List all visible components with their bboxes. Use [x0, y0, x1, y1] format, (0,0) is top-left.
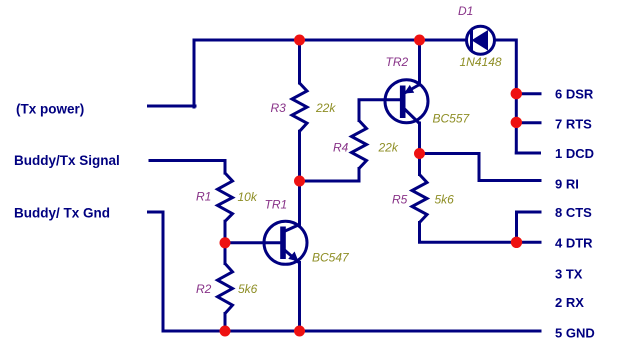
wire TR1 emitter down — [298, 263, 301, 332]
svg-text:Buddy/ Tx Gnd: Buddy/ Tx Gnd — [14, 206, 110, 221]
wire RTS stub — [516, 121, 540, 124]
wire DCD stub — [516, 152, 539, 155]
resistor R3 — [292, 83, 307, 131]
svg-text:R5: R5 — [392, 192, 408, 206]
wire R2 bottom — [224, 314, 227, 332]
svg-text:R1: R1 — [196, 190, 211, 204]
svg-text:TR2: TR2 — [386, 55, 409, 69]
svg-text:8 CTS: 8 CTS — [555, 205, 592, 220]
svg-text:22k: 22k — [315, 101, 336, 115]
svg-text:6 DSR: 6 DSR — [555, 86, 594, 101]
svg-text:9 RI: 9 RI — [555, 176, 579, 191]
node junction RTS — [511, 117, 522, 128]
svg-text:BC547: BC547 — [312, 251, 350, 265]
svg-text:BC557: BC557 — [433, 112, 471, 126]
wire Gnd lead — [149, 212, 164, 331]
wire R2 top — [224, 243, 227, 264]
node junction DSR — [511, 88, 522, 99]
svg-text:1 DCD: 1 DCD — [555, 146, 594, 161]
node junction top R3 — [294, 35, 305, 46]
wire top rail — [194, 40, 465, 107]
node junction top TR2 — [414, 35, 425, 46]
resistor R5 — [412, 175, 427, 223]
svg-text:5k6: 5k6 — [435, 192, 455, 206]
svg-text:4 DTR: 4 DTR — [555, 236, 593, 251]
wire R4 top to TR2 base — [359, 100, 400, 121]
transistor TR1 — [264, 221, 307, 264]
node junction TR1 base — [220, 237, 231, 248]
node junction R3 R4 — [294, 176, 305, 187]
node junction DTR — [511, 237, 522, 248]
node junction rail TR1 — [294, 326, 305, 337]
svg-text:(Tx power): (Tx power) — [16, 102, 84, 117]
svg-text:1N4148: 1N4148 — [460, 55, 502, 69]
wire R3 top — [298, 40, 301, 83]
node junction TR2 collector — [414, 148, 425, 159]
svg-text:D1: D1 — [458, 4, 473, 18]
wire bottom rail — [163, 330, 540, 333]
svg-text:R4: R4 — [333, 141, 349, 155]
wire TR2 emitter to top rail — [418, 40, 421, 85]
wire signal lead to R1 — [150, 161, 225, 174]
wire CTS stub — [517, 212, 541, 242]
svg-text:5k6: 5k6 — [238, 282, 258, 296]
resistor R2 — [218, 264, 233, 314]
resistor R4 — [352, 121, 367, 169]
wire diode output to right column — [496, 40, 516, 153]
svg-text:10k: 10k — [238, 190, 258, 204]
svg-text:R3: R3 — [271, 101, 287, 115]
wire R3 bottom to TR1 collector — [298, 131, 301, 225]
svg-text:3 TX: 3 TX — [555, 266, 583, 281]
wire RI branch — [420, 154, 541, 181]
node junction rail R2 — [220, 326, 231, 337]
wire R4 bottom to node — [300, 169, 360, 182]
svg-text:R2: R2 — [196, 282, 212, 296]
wire R5 bottom to DTR — [420, 223, 541, 243]
wire DSR stub — [516, 92, 540, 95]
wire R1 bottom — [224, 221, 227, 243]
svg-text:2 RX: 2 RX — [555, 295, 584, 310]
resistor R1 — [218, 173, 233, 221]
svg-text:TR1: TR1 — [265, 197, 288, 211]
wire Tx power lead — [149, 105, 196, 108]
svg-text:22k: 22k — [378, 141, 399, 155]
transistor TR2 — [385, 80, 428, 124]
wire R5 top — [418, 154, 421, 175]
wire TR2 collector down — [418, 123, 421, 154]
svg-text:Buddy/Tx Signal: Buddy/Tx Signal — [14, 153, 120, 168]
svg-text:7 RTS: 7 RTS — [555, 116, 592, 131]
svg-text:5 GND: 5 GND — [555, 325, 595, 340]
diode D1 — [467, 26, 495, 54]
wire TR1 base — [225, 241, 281, 244]
